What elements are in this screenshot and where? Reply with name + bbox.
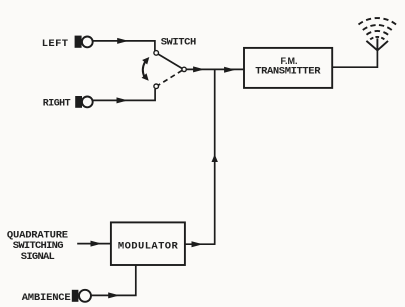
arrowhead on quadrature wire: [91, 241, 102, 247]
antenna: [359, 18, 397, 50]
switch lower contact: [154, 84, 159, 89]
svg-text:MODULATOR: MODULATOR: [118, 241, 179, 253]
switch upper contact: [154, 51, 159, 56]
jack J2 (RIGHT input connector): [75, 96, 93, 108]
wire modulator output to riser: [185, 243, 216, 245]
switch motion curved double arrow: [142, 57, 150, 81]
svg-text:RIGHT: RIGHT: [43, 99, 71, 110]
arrowhead before FM transmitter: [224, 67, 235, 73]
wire RIGHT jack to switch lower contact: [93, 89, 155, 101]
label QUADRATURE SWITCHING SIGNAL: [7, 229, 68, 263]
arrowhead on LEFT wire: [117, 38, 128, 44]
svg-text:SWITCH: SWITCH: [161, 37, 196, 49]
jack J1 (LEFT input connector): [75, 36, 93, 48]
arrowhead on RIGHT wire: [117, 97, 128, 103]
svg-text:SIGNAL: SIGNAL: [21, 251, 55, 263]
svg-text:F.M.: F.M.: [281, 56, 298, 66]
svg-text:AMBIENCE: AMBIENCE: [22, 292, 71, 304]
wire ambience jack up into modulator bottom: [92, 265, 136, 295]
arrowhead on modulator output: [192, 241, 203, 247]
wire LEFT jack to switch upper contact: [93, 41, 155, 51]
switch pole contact: [182, 67, 186, 71]
svg-text:LEFT: LEFT: [42, 38, 69, 50]
svg-text:TRANSMITTER: TRANSMITTER: [255, 66, 321, 78]
switch blade (solid, upper position): [158, 54, 182, 68]
arrowhead up on riser: [212, 154, 218, 162]
arrowhead after pole: [193, 66, 204, 72]
wire quadrature signal into modulator: [77, 243, 111, 245]
block U2 MODULATOR: [111, 222, 185, 265]
switch blade (dashed, lower position): [158, 70, 182, 85]
wire vertical riser from modulator output up to junction: [214, 69, 216, 244]
jack J3 (AMBIENCE input connector): [72, 290, 91, 302]
wire FM transmitter to antenna: [332, 50, 377, 67]
block U1 F.M. TRANSMITTER: [244, 48, 332, 88]
wire switch pole to FM transmitter: [187, 68, 245, 70]
arrowhead on ambience wire: [108, 292, 119, 298]
